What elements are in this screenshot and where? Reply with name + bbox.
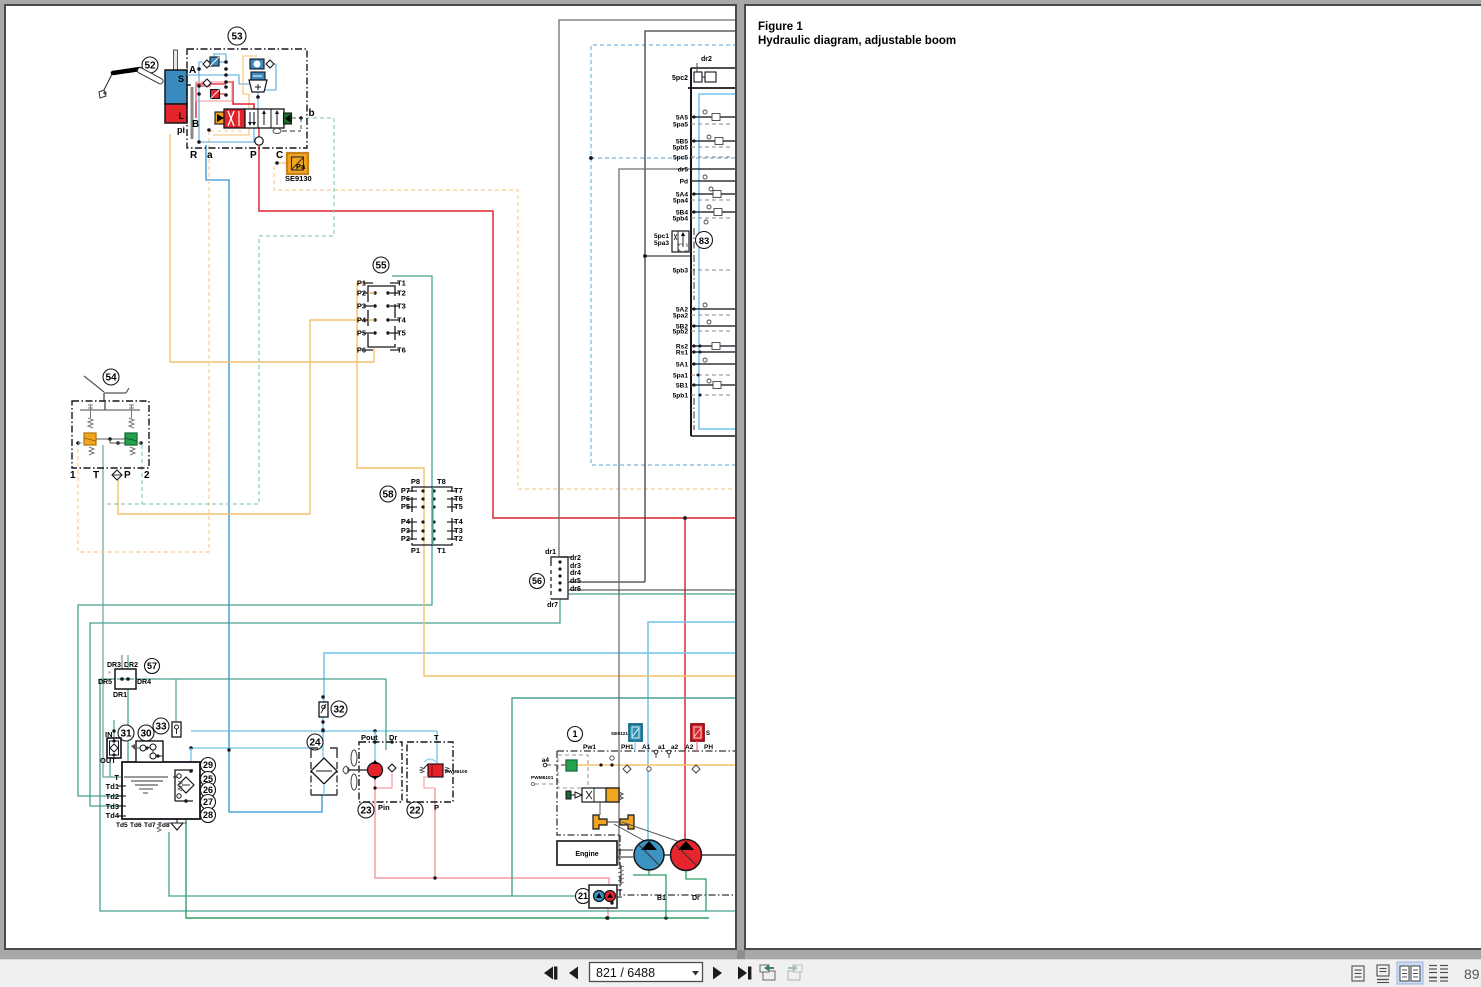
svg-text:Pw1: Pw1 [583,744,596,751]
53 relief valve red [211,90,220,99]
connector 56 [530,574,545,589]
filter 24 [307,734,323,750]
svg-text:P: P [124,470,131,481]
svg-text:5pb4: 5pb4 [673,216,689,223]
joystick 52 [99,57,164,98]
svg-text:31: 31 [120,729,132,740]
connector 55 [373,257,389,273]
svg-text:SE9121: SE9121 [611,731,628,737]
svg-text:Pd: Pd [680,179,688,186]
main valve green cap [284,113,292,124]
svg-text:A: A [189,65,196,76]
svg-text:Td3: Td3 [106,802,119,811]
53 funnel [249,80,267,92]
svg-text:30: 30 [140,729,152,740]
tank internal filter [175,770,193,801]
23 fan [343,750,357,790]
57 box [115,669,136,689]
page combo [590,963,703,982]
svg-text:821 / 6488: 821 / 6488 [596,966,655,980]
connector 58 [380,486,396,502]
svg-text:a: a [207,150,213,161]
svg-text:S: S [706,731,710,737]
cylinder 52 body [165,70,187,104]
frame grey outer [559,20,737,557]
53 junction dots [224,60,228,64]
wire cyan tank drop [190,748,192,771]
svg-text:*: * [108,671,111,678]
wire teal DR4 drop [385,679,387,750]
54 port diamond [112,470,122,480]
main valve pilot dash [292,117,306,119]
view continuous icon [1377,965,1389,983]
svg-text:27: 27 [203,797,213,807]
wire teal DR row [100,678,386,680]
wire cyan tank second [191,747,323,749]
svg-text:5pb5: 5pb5 [673,145,689,152]
fan pump 23 [358,802,374,818]
wire teal 54 T line [103,445,122,777]
53 internal cyan wire [257,92,259,110]
tank breather [171,823,183,830]
svg-text:5B1: 5B1 [676,383,688,390]
svg-text:dr5: dr5 [678,167,689,174]
53 internal red wires [196,82,259,137]
svg-text:SE9130: SE9130 [285,174,312,183]
svg-text:57: 57 [147,661,157,671]
wire red P line [259,146,737,518]
23 pump circle [368,763,383,778]
svg-text:5pc2: 5pc2 [672,75,688,82]
53 internal blue wires [187,54,276,142]
svg-text:dr3: dr3 [570,563,581,570]
svg-text:33: 33 [155,722,167,733]
svg-text:DR5: DR5 [98,679,112,686]
svg-text:dr1: dr1 [545,549,556,556]
83 center dash-dot [693,228,695,300]
svg-text:5pb3: 5pb3 [673,268,689,275]
blue sensor drop [634,741,636,751]
svg-text:5pa3: 5pa3 [654,240,669,247]
wire green bottom drain [186,819,709,918]
svg-text:C: C [276,150,283,161]
svg-text:L: L [179,111,185,121]
svg-text:23: 23 [360,806,372,817]
valve 32 [331,701,347,717]
wire orange 55 P4 [118,320,368,514]
pump group check diamonds [623,765,631,773]
tank [122,762,200,819]
pump red [671,840,702,871]
svg-text:PWM6100: PWM6100 [445,769,468,775]
sensor SE9130 [287,153,308,174]
svg-text:T8: T8 [437,477,446,486]
svg-text:b: b [309,108,315,119]
wire pink pump suction [375,777,609,889]
wire dashed yellow a pilot [78,131,209,552]
wire teal filter31 out [109,758,111,777]
wire dark dr6 line [568,589,737,591]
53 check valve A [203,60,211,68]
unit 21 [576,889,591,904]
wire blue a-line [206,145,322,812]
engine shaft hatch [620,865,622,885]
svg-text:dr2: dr2 [570,555,581,562]
svg-text:Pin: Pin [378,803,390,812]
wire green pump case box [512,698,737,896]
wire cyan pump23 Pout [374,731,376,762]
svg-text:56: 56 [532,576,542,586]
bottom bar [0,950,1481,959]
53 check diamond right [266,60,274,68]
svg-text:26: 26 [203,785,213,795]
wire green pump drains [633,869,649,875]
wire teal DR5 down [100,679,737,911]
svg-text:5pc1: 5pc1 [654,233,669,240]
54 springs [88,418,93,428]
valve block 53 [187,49,307,148]
svg-text:T: T [93,470,99,481]
wire dashed blue 5pc5 [591,157,737,159]
wire teal tank return [169,832,612,896]
58 vertical green [432,487,434,545]
svg-text:A1: A1 [642,744,651,751]
svg-text:55: 55 [375,261,387,272]
svg-text:DR3: DR3 [107,662,121,669]
pipe bar [191,87,194,139]
svg-text:5pc5: 5pc5 [673,155,688,162]
24 cyan pass [322,748,324,758]
wire dashed yellow C pilot [274,166,737,489]
svg-text:Figure 1: Figure 1 [758,21,803,33]
svg-text:dr7: dr7 [547,602,558,609]
wire cyan horizontal to pumps [324,653,737,702]
svg-text:P1: P1 [411,546,420,555]
svg-text:89.: 89. [1464,966,1481,982]
svg-text:Td5: Td5 [116,822,128,829]
wire cyan valve22 T [436,731,438,764]
svg-text:5pa4: 5pa4 [673,198,688,205]
right PDF page [745,5,1481,949]
svg-text:B: B [192,119,199,130]
tank port circles [201,758,216,773]
servo link lines [614,824,648,843]
svg-text:T1: T1 [437,546,446,555]
83 light blue riser [699,94,737,429]
55 orange stubs [368,292,375,294]
valve 33 [153,718,169,734]
svg-text:Pa: Pa [296,162,306,171]
wire grey dr5 top link [619,169,691,865]
wire cyan tank top [191,730,437,732]
83 circled number [696,232,713,249]
svg-text:24: 24 [309,738,321,749]
wire green dr6 line [568,593,737,595]
wire teal DR1 to tank [127,689,129,762]
svg-text:P: P [434,803,439,812]
engine box [557,841,617,865]
svg-text:Rs1: Rs1 [676,350,688,357]
red sensor drop [696,741,698,751]
54 solenoid green [125,433,137,445]
83 dots [692,115,695,118]
pump group number 1 [568,727,583,742]
24 diamond [311,758,337,784]
svg-text:a2: a2 [671,744,679,751]
left PDF page [5,5,736,949]
svg-text:B1: B1 [657,895,666,902]
main valve red solenoid [224,109,245,128]
svg-text:54: 54 [105,373,117,384]
svg-text:5pb1: 5pb1 [673,393,689,400]
svg-text:5A1: 5A1 [676,362,688,369]
svg-text:a1: a1 [658,744,666,751]
svg-text:T: T [114,773,119,782]
wire yellow SE9130 stub [278,162,287,164]
svg-text:dr4: dr4 [570,570,581,577]
tool icon import [760,965,775,981]
svg-text:Td6: Td6 [130,822,142,829]
svg-text:Dr: Dr [389,733,397,742]
wire pink from valve 22 [434,788,436,878]
frame dark inner [645,31,737,582]
nav prev [569,967,578,980]
pump blue [634,840,664,870]
svg-text:28: 28 [203,810,213,820]
22 pink loop [424,777,435,788]
83 ports [673,115,737,400]
pump regulator valve [582,788,619,802]
valve block 83 frame [690,68,692,436]
pump group box [557,751,737,895]
svg-text:58: 58 [382,490,394,501]
wire dark dr1 link [645,255,691,257]
cylinder rod [174,50,178,102]
svg-text:S: S [178,74,184,84]
svg-text:22: 22 [409,806,421,817]
main valve body [245,109,284,128]
wire cyan unit32 drop [322,717,324,748]
svg-text:P: P [250,150,257,161]
nav next [713,967,722,980]
svg-text:A2: A2 [685,744,694,751]
svg-text:5pb2: 5pb2 [673,329,689,336]
svg-text:PH1: PH1 [621,744,634,751]
wire cyan A1 riser [648,622,737,840]
svg-text:83: 83 [699,236,710,247]
view single page icon [1352,966,1364,981]
svg-text:DR4: DR4 [137,679,151,686]
svg-text:dr5: dr5 [570,578,581,585]
wire dashed blue frame [591,45,737,465]
cooler 30 [138,725,154,741]
wire orange pi line [170,134,374,362]
svg-text:T: T [434,733,439,742]
manifold 57 [145,659,160,674]
svg-text:Td7: Td7 [144,822,156,829]
wire dashed green 54 port2 [141,445,143,504]
svg-text:PWM6101: PWM6101 [531,775,554,781]
nav last page [738,967,747,980]
wire red pump riser [684,518,686,840]
nav first page [544,967,553,980]
lever 54 [103,369,119,385]
svg-text:5pa2: 5pa2 [673,313,688,320]
svg-text:5pa1: 5pa1 [673,373,688,380]
view two page continuous icon [1429,966,1448,982]
22 solenoid [428,764,443,777]
svg-text:21: 21 [578,891,588,901]
valve 54 box [72,401,149,468]
wire teal filter31 in [113,720,115,741]
23 check diamond [388,764,396,772]
53 pilot pink box [196,82,232,101]
Rs small dots [699,345,702,348]
svg-text:Td4: Td4 [106,811,120,820]
svg-text:pi: pi [177,125,185,135]
svg-text:1: 1 [70,470,76,481]
svg-text:dr6: dr6 [570,586,581,593]
svg-text:32: 32 [333,705,345,716]
wire dashed teal b pilot [106,118,334,504]
svg-text:DR2: DR2 [124,662,138,669]
53 internal yellow wires [213,56,257,135]
wire orange 55 P1 [357,283,737,676]
svg-text:DR1: DR1 [113,692,127,699]
53 relief valve blue [210,57,219,66]
tool icon export disabled [788,965,802,981]
wire pink below unit 21 [607,903,609,918]
svg-text:5pa5: 5pa5 [673,122,688,129]
83 port glyphs [703,110,707,114]
svg-text:Dr: Dr [692,895,700,902]
svg-text:PH: PH [704,744,713,751]
53 dashed yellow pilot [210,130,245,132]
53 pressure valve lower [251,72,265,80]
wire teal unit33 drop [175,679,177,722]
54 solenoid orange [84,433,96,445]
main valve orange pusher [215,112,224,124]
filter 31 [118,725,134,741]
53 pressure valve upper [250,59,264,69]
svg-text:5A5: 5A5 [676,115,688,122]
red sensor [691,724,704,741]
svg-text:Engine: Engine [575,851,598,858]
wire orange pump control [562,764,737,766]
pump servo pistons [593,815,607,829]
53 check valve B [203,79,211,87]
svg-text:Td1: Td1 [106,782,119,791]
wire teal 55T trunk [78,276,432,796]
svg-text:Hydraulic diagram, adjustable: Hydraulic diagram, adjustable boom [758,35,956,47]
svg-text:dr2: dr2 [701,56,712,63]
svg-text:R: R [190,150,198,161]
valve port circle P [255,137,263,145]
wire teal dr7 [90,599,560,806]
view two page icon selected [1397,962,1423,984]
svg-text:1: 1 [572,729,577,739]
valve 22 [407,802,423,818]
svg-text:29: 29 [203,760,213,770]
wire grey dr5 riser [568,581,645,583]
22 markings [424,764,428,768]
svg-text:53: 53 [231,32,243,43]
svg-text:Td2: Td2 [106,792,119,801]
svg-text:2: 2 [144,470,150,481]
23 drain link [375,772,392,788]
54 links [96,438,125,440]
svg-text:P8: P8 [411,477,420,486]
